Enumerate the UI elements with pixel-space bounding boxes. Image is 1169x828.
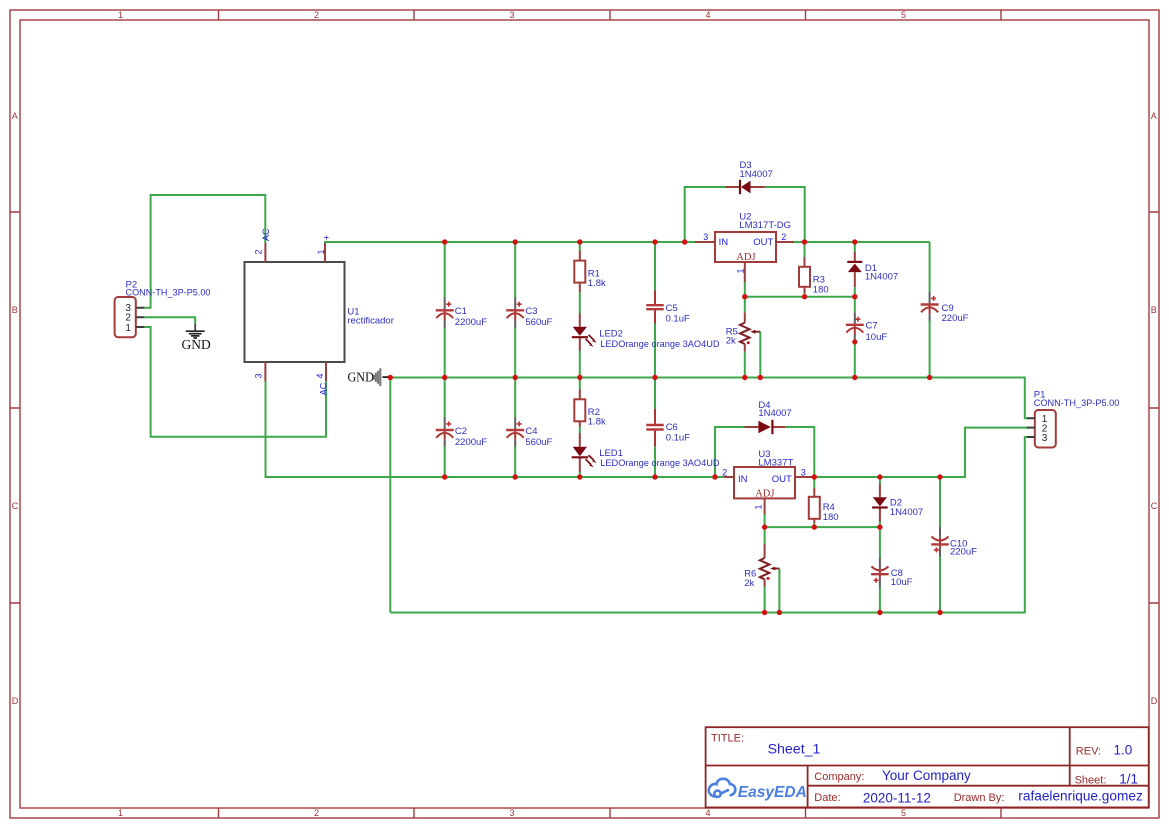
wire R2 LED1 column bbox=[579, 378, 581, 478]
svg-text:IN: IN bbox=[738, 474, 748, 485]
svg-text:AC: AC bbox=[318, 382, 328, 395]
potentiometer R5 bbox=[740, 312, 760, 351]
wire P2 pin1 to U1 pin4 bbox=[144, 327, 326, 437]
svg-text:2: 2 bbox=[722, 467, 727, 477]
svg-text:A: A bbox=[1151, 111, 1157, 121]
svg-text:5: 5 bbox=[901, 808, 906, 818]
svg-text:C: C bbox=[1151, 501, 1158, 511]
svg-text:AC: AC bbox=[261, 228, 271, 241]
wire C7 column bbox=[854, 297, 856, 378]
svg-text:180: 180 bbox=[813, 285, 829, 296]
svg-text:1.0: 1.0 bbox=[1114, 742, 1133, 757]
svg-text:C6: C6 bbox=[666, 422, 678, 433]
wire P2 pin3 to U1 pin2 bbox=[144, 195, 265, 308]
wire +out rail from U2 OUT to C9 bbox=[794, 241, 930, 243]
svg-text:2: 2 bbox=[125, 313, 131, 324]
wire U3 ADJ drop bbox=[764, 514, 766, 527]
junction dots GND rail bbox=[388, 375, 933, 380]
svg-text:Sheet_1: Sheet_1 bbox=[768, 742, 821, 757]
capacitor C6 symbol bbox=[646, 409, 663, 447]
border ticks right bbox=[1149, 212, 1159, 603]
wire C3 column bbox=[514, 242, 516, 378]
capacitor C5 symbol bbox=[646, 291, 663, 324]
svg-text:2k: 2k bbox=[726, 335, 736, 346]
svg-text:C1: C1 bbox=[455, 306, 467, 317]
svg-text:A: A bbox=[12, 111, 18, 121]
svg-text:2k: 2k bbox=[744, 578, 754, 589]
svg-text:B: B bbox=[1151, 305, 1157, 315]
capacitor C9 symbol bbox=[921, 292, 939, 321]
wire lower ADJ row bbox=[765, 526, 880, 528]
svg-text:1: 1 bbox=[736, 268, 746, 273]
wire D4 loop bbox=[715, 427, 814, 477]
capacitor C8 symbol bbox=[871, 558, 889, 587]
junction dots bottom rail bbox=[762, 610, 943, 615]
wire U2 ADJ drop bbox=[744, 282, 746, 297]
GND net flag at rectifier output bbox=[374, 368, 389, 386]
capacitor C7 symbol bbox=[846, 312, 864, 340]
resistor R3 bbox=[799, 257, 810, 293]
regulator U3 LM337T bbox=[724, 467, 814, 514]
PARTS bbox=[115, 160, 1120, 615]
svg-text:10uF: 10uF bbox=[891, 577, 913, 588]
svg-text:C3: C3 bbox=[525, 306, 537, 317]
LED1 symbol bbox=[572, 433, 597, 472]
svg-text:Drawn By:: Drawn By: bbox=[954, 792, 1005, 804]
svg-text:560uF: 560uF bbox=[525, 437, 552, 448]
svg-text:CONN-TH_3P-P5.00: CONN-TH_3P-P5.00 bbox=[126, 288, 211, 299]
wire -out rail from U3 OUT to P1 pin2 bbox=[813, 428, 1028, 477]
wire R1 LED2 column bbox=[579, 242, 581, 378]
svg-text:1.8k: 1.8k bbox=[588, 278, 606, 289]
svg-text:CONN-TH_3P-P5.00: CONN-TH_3P-P5.00 bbox=[1034, 398, 1120, 409]
diode D3 bbox=[725, 180, 765, 194]
wire GND rail to P1 pin1 bbox=[390, 378, 1028, 419]
svg-text:220uF: 220uF bbox=[942, 313, 969, 324]
svg-text:10uF: 10uF bbox=[866, 332, 888, 343]
rectifier U1 body bbox=[245, 262, 345, 362]
svg-text:1N4007: 1N4007 bbox=[865, 272, 898, 283]
svg-text:1: 1 bbox=[118, 808, 123, 818]
svg-text:ADJ: ADJ bbox=[736, 252, 755, 263]
svg-text:Date:: Date: bbox=[814, 792, 840, 804]
EasyEDA logo cloud bbox=[709, 779, 736, 797]
svg-text:4: 4 bbox=[315, 373, 325, 378]
svg-text:3: 3 bbox=[510, 808, 515, 818]
diode D2 bbox=[872, 484, 888, 522]
svg-text:2: 2 bbox=[314, 10, 319, 20]
svg-text:LEDOrange orange 3AO4UD: LEDOrange orange 3AO4UD bbox=[600, 458, 719, 469]
border ticks top bbox=[219, 10, 1002, 20]
capacitor C3 symbol bbox=[506, 297, 524, 327]
wire R6 column bbox=[764, 527, 766, 612]
resistor R1 bbox=[574, 251, 585, 292]
capacitor C2 symbol bbox=[436, 417, 454, 447]
wire R4 column bbox=[813, 477, 815, 527]
svg-text:1: 1 bbox=[118, 10, 123, 20]
svg-text:1: 1 bbox=[316, 249, 326, 254]
svg-text:Company:: Company: bbox=[814, 771, 864, 783]
svg-text:OUT: OUT bbox=[772, 474, 792, 485]
svg-text:2020-11-12: 2020-11-12 bbox=[863, 790, 931, 805]
svg-text:1N4007: 1N4007 bbox=[890, 507, 923, 518]
svg-text:2: 2 bbox=[254, 249, 264, 254]
regulator U2 LM317T-DG bbox=[695, 232, 794, 282]
svg-text:GND: GND bbox=[348, 369, 375, 384]
wire upper ADJ row bbox=[745, 296, 855, 298]
LED2 symbol bbox=[572, 314, 597, 351]
svg-text:LED1: LED1 bbox=[599, 448, 623, 459]
svg-text:3: 3 bbox=[510, 10, 515, 20]
wire C4 column bbox=[514, 378, 516, 478]
svg-text:IN: IN bbox=[719, 237, 729, 248]
wire D2 column bbox=[879, 477, 881, 527]
resistor R4 bbox=[809, 488, 820, 523]
svg-text:1: 1 bbox=[753, 504, 763, 509]
svg-text:3: 3 bbox=[254, 373, 264, 378]
capacitor C10 symbol bbox=[931, 527, 949, 557]
svg-text:C9: C9 bbox=[942, 303, 954, 314]
svg-text:2: 2 bbox=[781, 232, 786, 242]
svg-text:OUT: OUT bbox=[753, 237, 773, 248]
svg-text:4: 4 bbox=[706, 10, 711, 20]
title block dividers bbox=[706, 727, 1149, 807]
wire P2 pin2 to GND bbox=[144, 317, 195, 324]
svg-text:2200uF: 2200uF bbox=[455, 437, 487, 448]
svg-text:3: 3 bbox=[801, 467, 806, 477]
wire C5 column bbox=[654, 242, 656, 378]
wire R3 column bbox=[804, 242, 806, 297]
wire C2 column bbox=[444, 378, 446, 478]
capacitor C4 symbol bbox=[506, 417, 524, 447]
connector P1 CONN-TH_3P-P5.00 bbox=[1027, 410, 1056, 448]
svg-text:GND: GND bbox=[182, 337, 211, 352]
svg-text:2: 2 bbox=[314, 808, 319, 818]
resistor R2 bbox=[574, 390, 585, 427]
svg-text:2200uF: 2200uF bbox=[455, 317, 487, 328]
wire C10 column bbox=[939, 477, 941, 613]
svg-text:Sheet:: Sheet: bbox=[1075, 775, 1107, 787]
svg-text:1.8k: 1.8k bbox=[588, 417, 606, 428]
svg-text:+: + bbox=[321, 235, 331, 240]
svg-text:Your Company: Your Company bbox=[882, 768, 971, 783]
U1 pin 2 stub top left bbox=[264, 243, 266, 262]
junction dots top rail bbox=[442, 239, 858, 244]
svg-text:rectificador: rectificador bbox=[347, 315, 393, 326]
svg-text:LEDOrange orange 3AO4UD: LEDOrange orange 3AO4UD bbox=[600, 339, 719, 350]
svg-text:REV:: REV: bbox=[1076, 746, 1101, 758]
svg-text:1N4007: 1N4007 bbox=[758, 408, 791, 419]
svg-text:560uF: 560uF bbox=[525, 317, 552, 328]
svg-text:0.1uF: 0.1uF bbox=[666, 313, 690, 324]
svg-text:3: 3 bbox=[1042, 433, 1048, 444]
svg-text:B: B bbox=[12, 305, 18, 315]
connector P2 CONN-TH_3P-P5.00 bbox=[115, 297, 145, 337]
svg-text:D: D bbox=[12, 696, 19, 706]
svg-text:EasyEDA: EasyEDA bbox=[738, 784, 807, 801]
svg-text:C7: C7 bbox=[866, 321, 878, 332]
junction dots upper ADJ row bbox=[742, 294, 857, 345]
wire R5 wiper drop bbox=[759, 332, 761, 377]
svg-text:TITLE:: TITLE: bbox=[711, 733, 744, 745]
svg-text:180: 180 bbox=[823, 512, 839, 523]
svg-text:C: C bbox=[12, 501, 19, 511]
svg-text:220uF: 220uF bbox=[950, 547, 977, 558]
potentiometer R6 bbox=[760, 544, 780, 587]
wire D1 column bbox=[854, 242, 856, 297]
border ticks bottom bbox=[219, 808, 1002, 818]
svg-text:C2: C2 bbox=[455, 426, 467, 437]
wire C9 column bbox=[929, 242, 931, 378]
U1 pin 3 stub bottom left bbox=[264, 362, 266, 381]
wire GND drop to bottom rail bbox=[389, 378, 391, 613]
svg-text:LM337T: LM337T bbox=[758, 457, 793, 468]
junction dots lower rail bbox=[442, 474, 943, 479]
wire U1 pin3 to -raw rail to U3 IN bbox=[266, 381, 724, 477]
diode D4 bbox=[744, 420, 785, 434]
wire bottom GND rail to P1 pin3 bbox=[390, 437, 1028, 613]
border ticks left bbox=[10, 212, 20, 603]
wire +raw rail from U1 pin1 to U2 IN bbox=[325, 242, 695, 243]
svg-text:D: D bbox=[1151, 696, 1158, 706]
junction dots lower ADJ row bbox=[762, 524, 883, 529]
svg-text:C4: C4 bbox=[525, 426, 537, 437]
svg-text:LM317T-DG: LM317T-DG bbox=[739, 220, 791, 231]
svg-text:ADJ: ADJ bbox=[755, 488, 774, 499]
title block outline bbox=[706, 727, 1149, 807]
U1 pin 4 stub bottom right bbox=[325, 362, 327, 381]
svg-text:5: 5 bbox=[901, 10, 906, 20]
svg-text:1/1: 1/1 bbox=[1119, 771, 1138, 786]
svg-text:rafaelenrique.gomez: rafaelenrique.gomez bbox=[1018, 789, 1143, 804]
U1 pin 1 stub top right bbox=[324, 243, 326, 262]
wire C1 column bbox=[444, 242, 446, 378]
svg-text:1: 1 bbox=[125, 323, 131, 334]
svg-text:0.1uF: 0.1uF bbox=[666, 432, 690, 443]
wire C6 column bbox=[654, 378, 656, 478]
capacitor C1 symbol bbox=[436, 297, 454, 327]
TITLEBLOCK bbox=[706, 727, 1149, 807]
diode D1 bbox=[847, 252, 862, 287]
svg-text:3: 3 bbox=[703, 232, 708, 242]
svg-text:R4: R4 bbox=[823, 502, 835, 513]
ground earth symbol below P2 pin2 bbox=[186, 324, 205, 338]
svg-text:4: 4 bbox=[706, 808, 711, 818]
wire D3 loop bbox=[685, 187, 805, 242]
svg-text:1N4007: 1N4007 bbox=[740, 169, 773, 180]
wire R6 wiper drop bbox=[778, 569, 780, 613]
wire C8 column bbox=[879, 527, 881, 612]
wire R5 column bbox=[744, 297, 746, 377]
